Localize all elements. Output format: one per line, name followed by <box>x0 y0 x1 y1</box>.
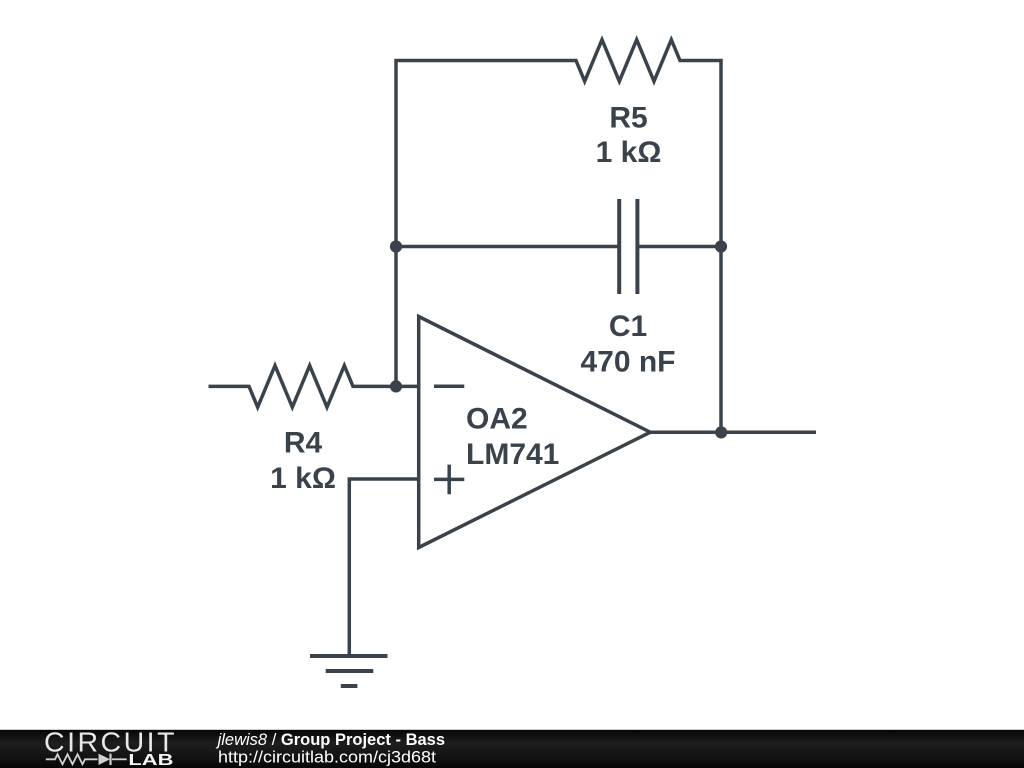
svg-text:C1: C1 <box>609 310 647 343</box>
svg-text:1 kΩ: 1 kΩ <box>270 462 336 495</box>
svg-text:R5: R5 <box>609 101 647 134</box>
svg-text:470 nF: 470 nF <box>580 346 675 379</box>
svg-text:OA2: OA2 <box>466 402 528 435</box>
svg-text:http://circuitlab.com/cj3d68t: http://circuitlab.com/cj3d68t <box>218 749 436 767</box>
svg-text:LM741: LM741 <box>466 438 559 471</box>
svg-text:R4: R4 <box>284 427 323 460</box>
svg-text:1 kΩ: 1 kΩ <box>596 136 662 169</box>
svg-text:LAB: LAB <box>128 752 173 768</box>
svg-text:jlewis8 / Group Project - Bass: jlewis8 / Group Project - Bass <box>216 731 445 749</box>
